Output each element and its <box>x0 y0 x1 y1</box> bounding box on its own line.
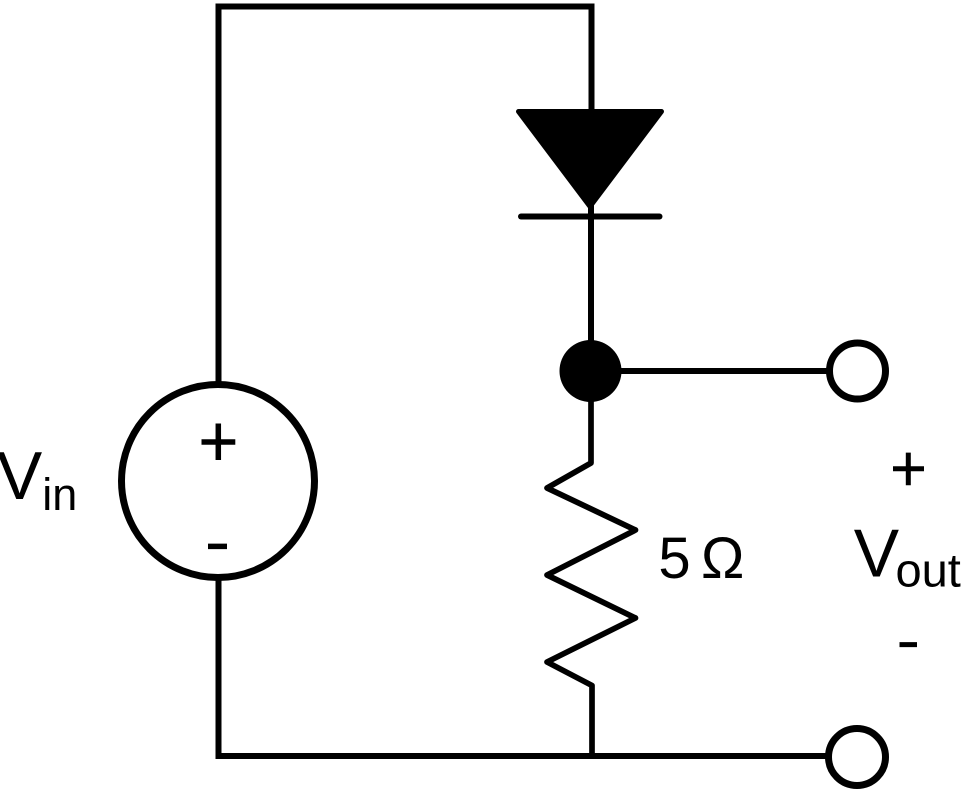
minus sign output <box>900 642 918 647</box>
wire top loop: source top to diode anode <box>219 7 592 384</box>
svg-text:Ω: Ω <box>701 526 744 591</box>
svg-text:V: V <box>0 438 43 514</box>
svg-text:in: in <box>42 469 77 520</box>
plus sign inside source <box>202 424 236 461</box>
diode D1 cathode bar <box>521 214 660 220</box>
svg-text:V: V <box>854 516 900 592</box>
resistor R1 zigzag (5 ohm) <box>547 395 636 757</box>
node junction dot <box>560 340 622 402</box>
svg-text:out: out <box>896 544 961 597</box>
wire: node to top-right terminal <box>591 368 827 374</box>
voltage source VS circle <box>122 385 315 578</box>
plus sign output <box>893 453 924 486</box>
terminal: bottom-right output (-) <box>829 729 886 786</box>
terminal: top-right output (+) <box>830 343 886 399</box>
diode D1 triangle <box>519 112 662 207</box>
wire bottom rail: source bottom to bottom-right terminal <box>219 579 827 756</box>
wire: diode cathode to node <box>588 205 594 355</box>
minus sign inside source <box>208 544 227 550</box>
svg-text:5: 5 <box>658 526 690 591</box>
